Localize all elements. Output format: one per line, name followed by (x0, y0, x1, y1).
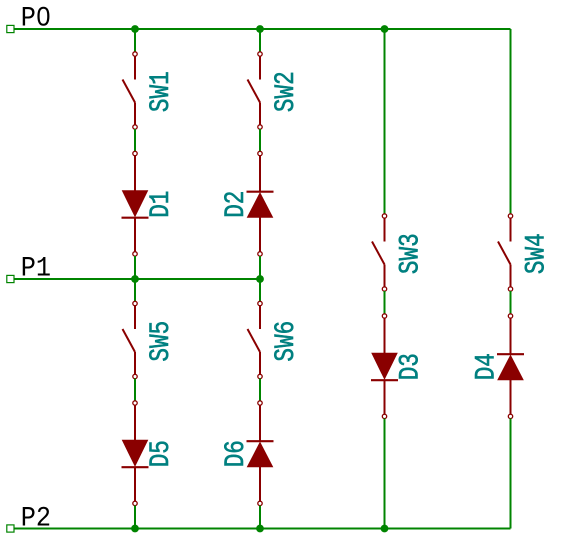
wire SW4 to D4 (510, 291, 512, 314)
wire D2 to P1 (259, 256, 261, 279)
junction P0-branch2 (256, 25, 264, 33)
wire D5 to P2 (134, 506, 136, 529)
wire SW2 to D2 (259, 129, 261, 152)
wire D6 to P2 (259, 506, 261, 529)
wire SW1 to D1 (134, 129, 136, 152)
junction P2-branch3 (381, 525, 389, 533)
wire P0 to SW1 (134, 29, 136, 52)
diode D3 (384, 318, 386, 353)
wire P0 to SW3 (384, 29, 386, 214)
diode D6 (259, 405, 261, 441)
svg-text:D1: D1 (145, 191, 177, 218)
svg-text:SW4: SW4 (520, 233, 552, 274)
wire P0 to SW2 (259, 29, 261, 52)
svg-text:P1: P1 (21, 252, 51, 284)
svg-text:D6: D6 (220, 440, 252, 467)
wire P1 rail (11, 278, 261, 280)
junction P1-branch2 (256, 275, 264, 283)
wire D3 to P2 (384, 419, 386, 529)
wire P0 rail (11, 28, 511, 30)
junction P0-branch3 (381, 25, 389, 33)
wire P1 to SW5 (134, 279, 136, 302)
wire P1 to SW6 (259, 279, 261, 302)
switch SW6 (248, 306, 261, 374)
wire D4 to P2 corner (510, 419, 512, 529)
wire P0 corner to SW4 (510, 29, 512, 214)
wire SW5 to D5 (134, 379, 136, 402)
wire P2 rail (11, 528, 511, 530)
svg-text:SW2: SW2 (270, 71, 302, 112)
switch SW4 (498, 218, 511, 286)
svg-text:SW6: SW6 (270, 321, 302, 362)
junction P2-branch1 (131, 525, 139, 533)
mask zero dot (41, 14, 46, 21)
node P1 open end (7, 275, 14, 282)
junction P2-branch2 (256, 525, 264, 533)
switch SW5 (123, 306, 136, 374)
switch SW3 (372, 218, 385, 286)
diode D4 (510, 318, 512, 354)
node P2 open end (7, 525, 14, 532)
svg-text:D5: D5 (145, 440, 177, 467)
svg-text:D3: D3 (394, 353, 426, 380)
wire SW6 to D6 (259, 379, 261, 402)
wire D1 to P1 (134, 256, 136, 279)
svg-text:D4: D4 (470, 353, 502, 380)
wire SW3 to D3 (384, 291, 386, 314)
switch SW1 (123, 56, 136, 124)
node P0 open end (7, 25, 14, 32)
junction P0-branch1 (131, 25, 139, 33)
junction P1-branch1 (131, 275, 139, 283)
diode D1 (134, 156, 136, 191)
svg-text:D2: D2 (220, 191, 252, 218)
svg-text:SW5: SW5 (145, 321, 177, 362)
svg-text:SW3: SW3 (394, 233, 426, 274)
diode D2 (259, 156, 261, 192)
switch SW2 (248, 56, 261, 124)
svg-text:SW1: SW1 (145, 71, 177, 112)
svg-text:P2: P2 (21, 502, 51, 534)
svg-text:P0: P0 (21, 2, 51, 34)
diode D5 (134, 405, 136, 440)
